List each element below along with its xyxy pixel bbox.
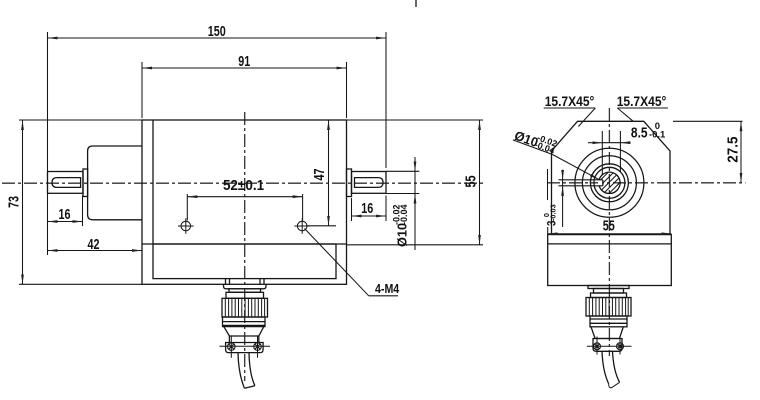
ring plate	[224, 284, 267, 289]
centerline horizontal right view	[547, 182, 746, 184]
centerline vertical right view	[608, 108, 610, 356]
mounting hole right	[294, 218, 310, 234]
body inner vertical line	[152, 120, 154, 244]
connector left view	[219, 279, 270, 389]
base right view	[548, 235, 672, 286]
text 3 tolerance (rotated)	[542, 204, 559, 226]
screw left	[228, 343, 236, 351]
svg-text:52±0.1: 52±0.1	[223, 177, 264, 194]
mounting hole left	[178, 218, 194, 234]
main body left view	[142, 120, 347, 284]
collar right	[347, 169, 352, 197]
svg-text:-0.1: -0.1	[649, 130, 666, 141]
svg-text:15.7X45°: 15.7X45°	[545, 93, 595, 109]
svg-text:91: 91	[238, 52, 250, 69]
circle 4	[594, 167, 625, 198]
screw ticks	[587, 337, 632, 355]
dimension 16 right	[352, 196, 387, 222]
dimension 47	[306, 120, 336, 226]
svg-text:150: 150	[208, 22, 226, 39]
dimension 55 right view	[547, 227, 549, 235]
base seam	[548, 243, 672, 245]
text 8.5 tolerance	[631, 121, 666, 141]
extension line bottom left 73	[19, 283, 142, 285]
chamfer leader right	[617, 108, 668, 121]
shaft circle hatched	[585, 168, 635, 196]
svg-text:-0.04: -0.04	[399, 204, 409, 225]
vertical tick left of circles	[547, 169, 549, 200]
collar left	[83, 169, 88, 197]
screw right	[617, 343, 624, 350]
dimension 150	[48, 32, 387, 168]
taper	[591, 327, 623, 339]
connector right view	[586, 286, 632, 388]
knurl	[586, 298, 631, 317]
dimension 8.5	[588, 131, 630, 175]
base inset rect	[153, 244, 336, 279]
ring C	[591, 293, 627, 298]
svg-text:15.7X45°: 15.7X45°	[617, 93, 667, 109]
centerline horizontal left view	[2, 182, 486, 184]
centerline vertical left view	[244, 112, 246, 381]
barrel	[590, 316, 627, 327]
flange	[593, 339, 622, 352]
boss left	[88, 146, 142, 220]
svg-text:73: 73	[5, 196, 22, 208]
border tick top	[415, 0, 417, 7]
svg-text:27.5: 27.5	[725, 136, 742, 162]
svg-text:Ø10: Ø10	[394, 223, 409, 247]
text Ø10 tolerance left view	[392, 204, 410, 247]
keyway notch white	[598, 180, 603, 186]
svg-text:8.5: 8.5	[631, 124, 648, 141]
text Ø10 tolerance right view	[512, 125, 558, 156]
circle 2	[582, 156, 636, 210]
svg-text:16: 16	[361, 199, 373, 216]
ring C	[226, 292, 264, 298]
cable	[238, 353, 245, 388]
shaft left	[48, 172, 84, 194]
svg-text:55: 55	[603, 217, 615, 234]
dimension 55 left view	[479, 120, 481, 245]
screw right	[254, 343, 262, 351]
taper	[224, 327, 264, 336]
extension line top (73 and 55)	[19, 119, 483, 121]
svg-text:4-M4: 4-M4	[375, 282, 400, 296]
dimension 42	[48, 168, 143, 255]
extension line bottom right 55	[347, 244, 484, 246]
dimension 73	[22, 120, 24, 284]
leader 4-M4	[305, 229, 399, 296]
dimension 3-0.03	[562, 170, 564, 227]
circle outer	[575, 148, 644, 217]
screw ticks	[219, 335, 270, 357]
dimension 52±0.1	[187, 194, 302, 221]
waist	[229, 336, 258, 343]
dimension 91	[142, 62, 347, 118]
keyway chord	[602, 180, 604, 186]
shaft right	[352, 172, 387, 194]
ring B	[229, 289, 261, 293]
dimension Ø10 left view	[386, 157, 419, 250]
chamfer leader left	[544, 108, 596, 127]
keyway slot lines	[559, 179, 603, 181]
svg-text:16: 16	[59, 205, 71, 222]
flange	[226, 343, 264, 353]
leader Ø10 right view	[513, 140, 600, 180]
svg-text:55: 55	[462, 176, 479, 188]
circle 3	[590, 164, 628, 202]
svg-text:42: 42	[88, 235, 100, 252]
keyway left	[52, 178, 81, 188]
barrel	[223, 317, 266, 327]
body seam line	[142, 243, 347, 245]
cable	[602, 352, 609, 384]
ring B	[594, 289, 624, 294]
dimension 16 left	[48, 196, 83, 227]
dimension 27.5	[673, 121, 743, 183]
screw left	[594, 343, 601, 350]
svg-text:-0.03: -0.03	[549, 204, 558, 221]
body right view	[552, 121, 671, 234]
neck stubs	[225, 279, 227, 285]
keyway right	[355, 178, 384, 188]
ring plate	[588, 286, 629, 289]
svg-text:47: 47	[310, 169, 327, 181]
knurl ring	[222, 298, 268, 317]
